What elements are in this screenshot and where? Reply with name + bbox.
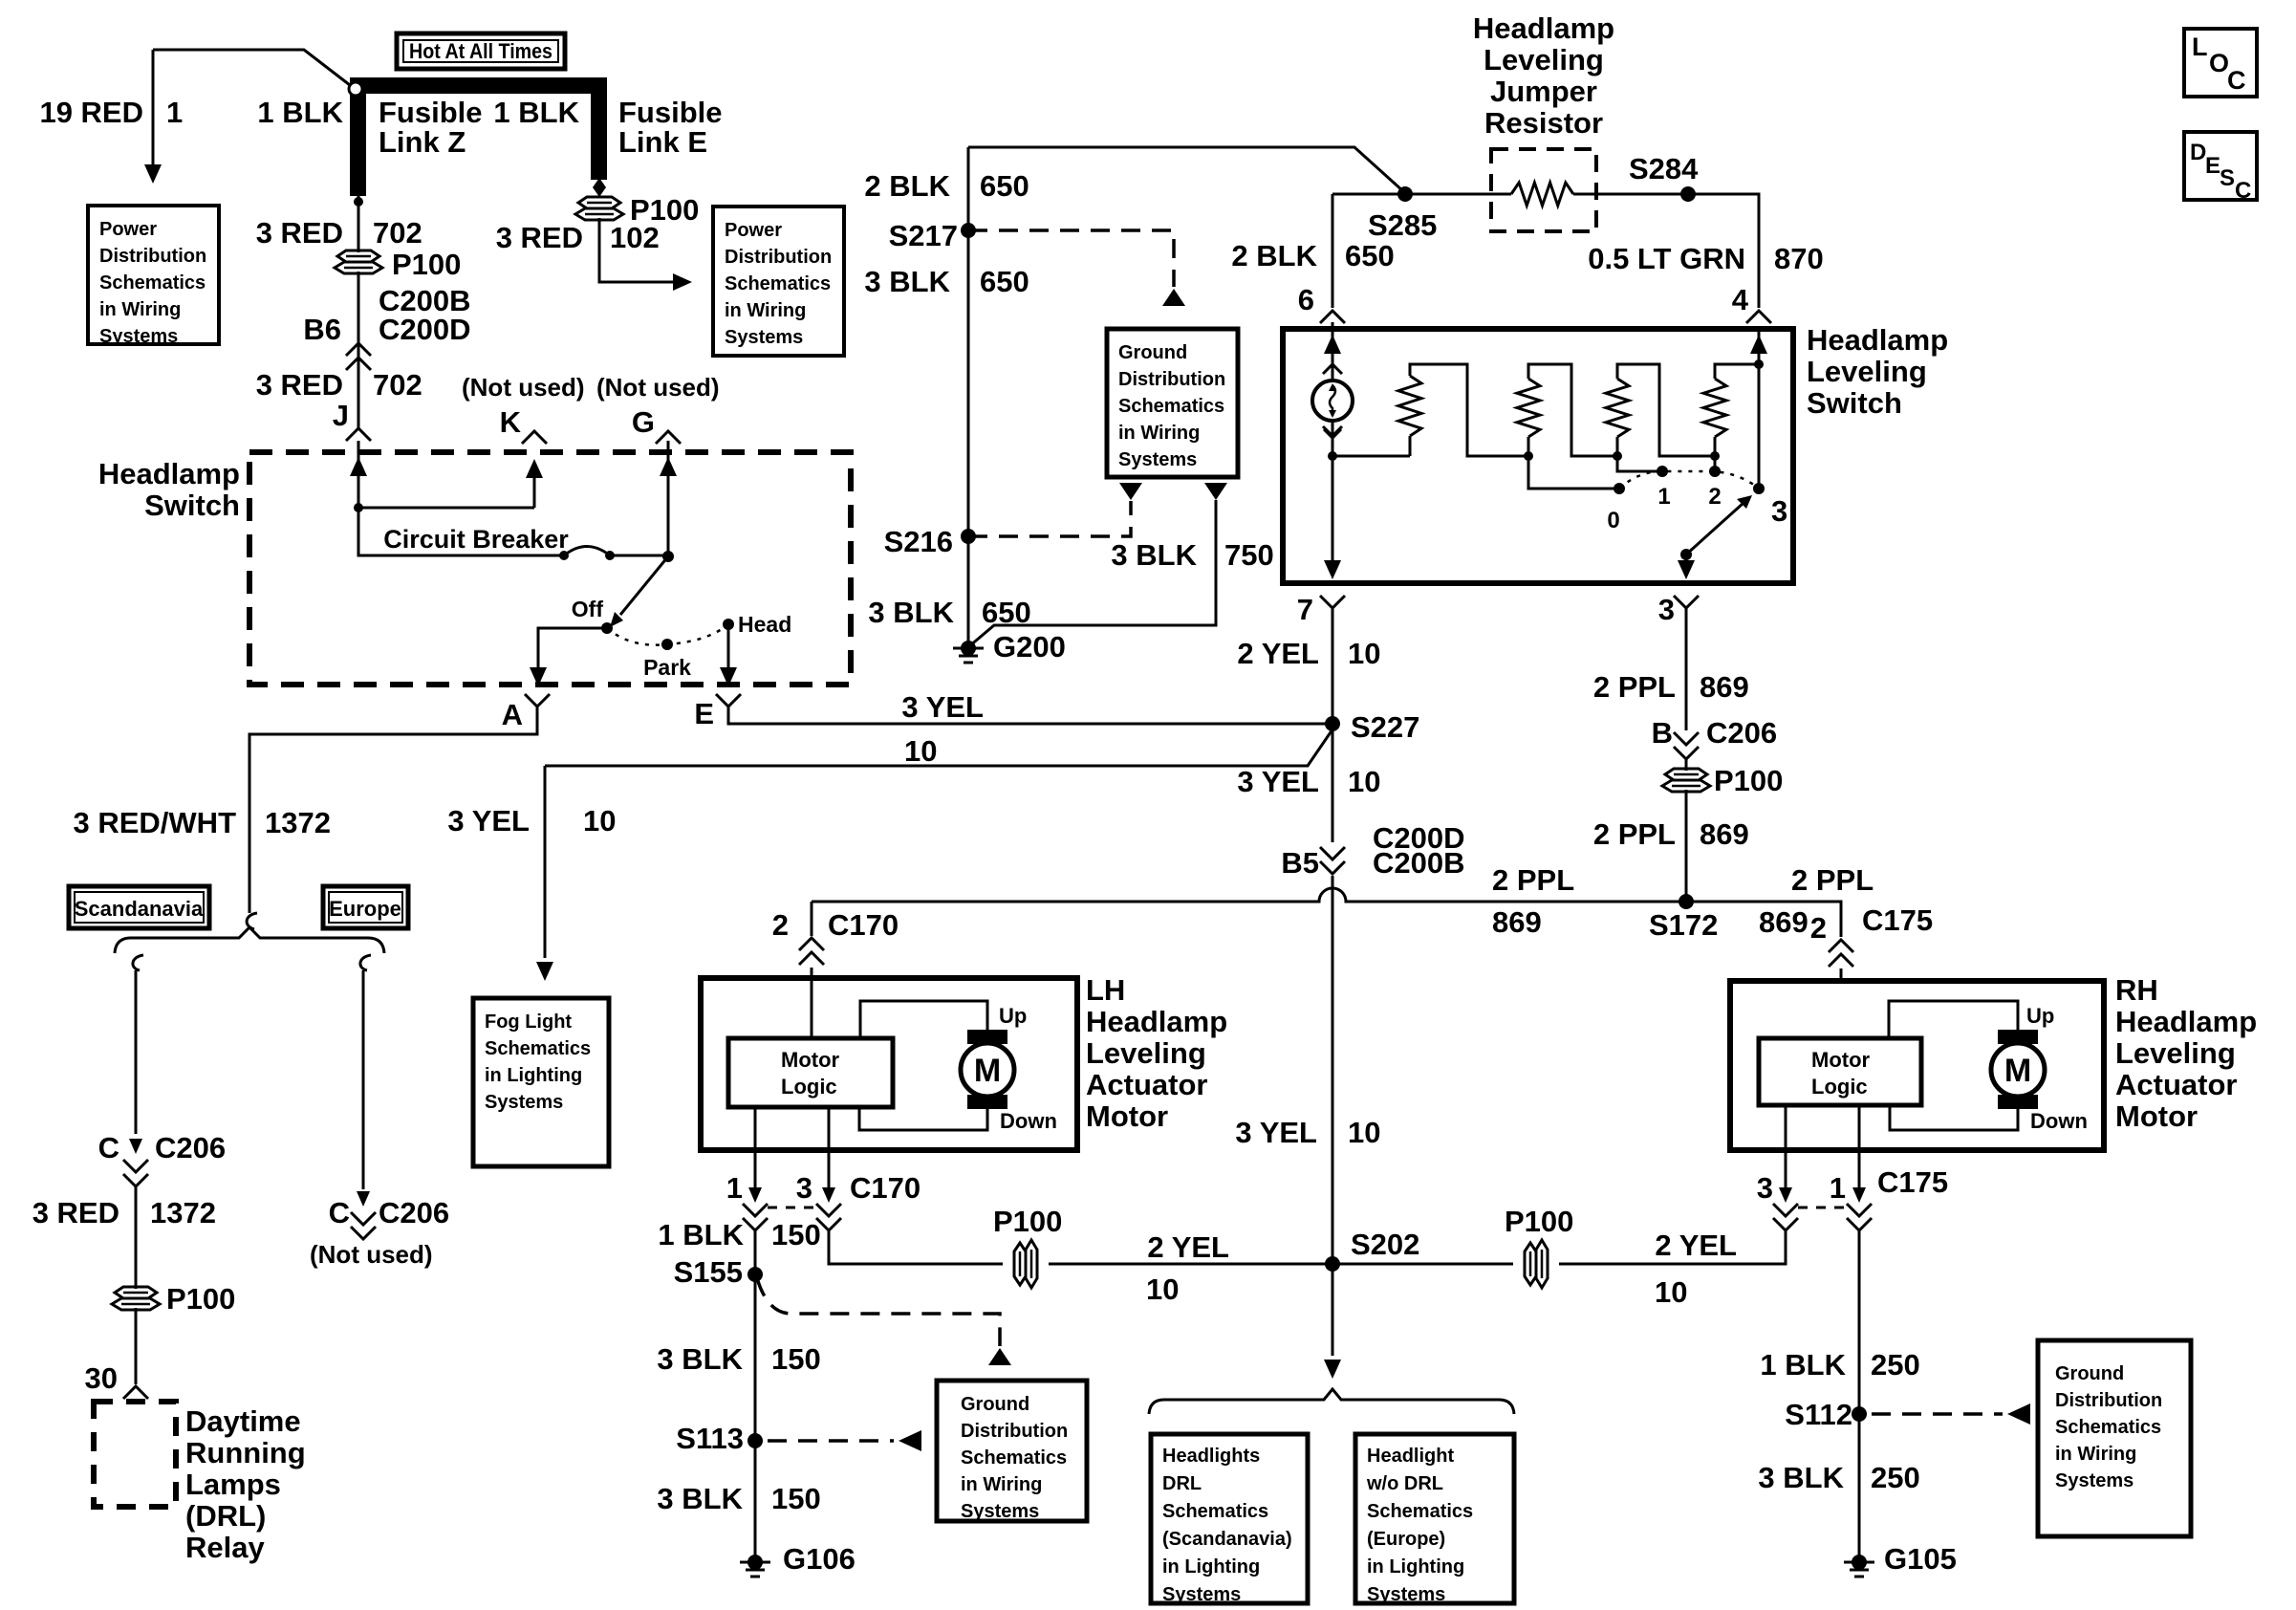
svg-text:Jumper: Jumper: [1490, 75, 1597, 108]
svg-text:B: B: [1652, 716, 1673, 750]
pin 6 wire inside switch: [1332, 322, 1334, 381]
svg-text:Distribution: Distribution: [2055, 1390, 2162, 1411]
node pin4 wire top: [1754, 359, 1764, 369]
svg-text:Headlights: Headlights: [1162, 1446, 1260, 1467]
reference box Headlights DRL Schematics Scandanavia: [1151, 1434, 1308, 1603]
svg-text:Systems: Systems: [725, 327, 803, 348]
wire to DRL relay pin 30: [135, 1308, 138, 1384]
svg-text:P100: P100: [392, 248, 461, 281]
svg-text:in Lighting: in Lighting: [485, 1065, 582, 1086]
svg-text:Actuator: Actuator: [2115, 1068, 2237, 1101]
resistor R4: [1703, 379, 1726, 437]
svg-text:C175: C175: [1862, 903, 1933, 937]
svg-text:0.5 LT GRN: 0.5 LT GRN: [1588, 242, 1745, 275]
wire 3 YEL 10 to fog lights: [544, 766, 547, 958]
node R2 bottom: [1524, 451, 1533, 461]
svg-text:S: S: [2220, 165, 2235, 191]
svg-text:3: 3: [1658, 593, 1675, 626]
svg-text:1372: 1372: [265, 806, 331, 839]
svg-text:30: 30: [85, 1361, 118, 1395]
brace over variant wires: [115, 927, 384, 953]
svg-text:869: 869: [1492, 905, 1542, 939]
switch wiper arrow to Off: [620, 556, 668, 615]
svg-text:1 BLK: 1 BLK: [1760, 1348, 1846, 1382]
connector C200 chevrons B5: [1320, 847, 1345, 859]
svg-text:C: C: [2227, 66, 2246, 95]
svg-text:2 YEL: 2 YEL: [1147, 1230, 1229, 1264]
svg-text:in Wiring: in Wiring: [725, 300, 806, 321]
svg-text:10: 10: [1348, 637, 1380, 670]
svg-text:Up: Up: [2026, 1004, 2054, 1028]
LH motor: [967, 1030, 1007, 1044]
svg-text:2 YEL: 2 YEL: [1655, 1229, 1737, 1262]
connector P100 on PPL 869: [1685, 759, 1688, 771]
splice S172: [1679, 894, 1694, 909]
svg-text:3 RED: 3 RED: [256, 216, 343, 250]
headlamp switch dashed box: [249, 452, 851, 685]
dashed reference S216 to ground distribution box: [968, 501, 1131, 536]
svg-text:Headlamp: Headlamp: [1086, 1005, 1227, 1038]
svg-text:3: 3: [1771, 494, 1787, 528]
wire 2 BLK 650 down to pin 6: [1332, 194, 1334, 308]
svg-text:2: 2: [1708, 484, 1721, 510]
fusible link Z body: [350, 94, 366, 196]
svg-text:7: 7: [1297, 593, 1313, 626]
splice S285: [1397, 186, 1413, 202]
dashed selector arc contacts: [1619, 471, 1759, 489]
reference box Power Distribution Schematics in Wiring Systems (left): [88, 206, 219, 344]
svg-text:3 BLK: 3 BLK: [1111, 538, 1197, 572]
svg-text:DRL: DRL: [1162, 1473, 1202, 1494]
svg-text:3 RED/WHT: 3 RED/WHT: [74, 806, 237, 839]
svg-text:S227: S227: [1351, 710, 1419, 744]
svg-text:Schematics: Schematics: [99, 272, 206, 294]
svg-text:Down: Down: [1000, 1109, 1057, 1133]
svg-text:Systems: Systems: [961, 1501, 1039, 1522]
svg-text:Ground: Ground: [1118, 342, 1187, 363]
svg-text:3 BLK: 3 BLK: [868, 596, 954, 629]
svg-text:2 PPL: 2 PPL: [1791, 863, 1874, 897]
svg-text:Logic: Logic: [1811, 1075, 1868, 1099]
svg-text:Headlamp: Headlamp: [2115, 1005, 2257, 1038]
dashed reference S217 to ground distribution box: [968, 230, 1174, 287]
svg-text:650: 650: [980, 265, 1029, 298]
fusible link E lower tip: [593, 178, 606, 197]
wire 3 RED 102 to power distribution ref: [599, 218, 679, 282]
svg-text:(Europe): (Europe): [1367, 1529, 1445, 1550]
svg-text:in Lighting: in Lighting: [1367, 1556, 1464, 1577]
svg-text:150: 150: [771, 1218, 821, 1251]
switch terminal J wire: [357, 441, 360, 508]
pin 4 wire inside switch: [1758, 329, 1761, 489]
svg-text:S217: S217: [889, 219, 958, 252]
svg-text:3: 3: [796, 1171, 812, 1205]
connector P100 on link E: [578, 197, 620, 208]
wire 19 RED feed from fusible link: [153, 50, 350, 85]
wire 2 YEL 10 pin7 to S227: [1332, 608, 1334, 718]
connector chevron terminal K: [522, 431, 547, 444]
svg-text:3 YEL: 3 YEL: [901, 690, 984, 724]
svg-text:10: 10: [583, 804, 616, 838]
wire 2 PPL 869 S172 to RH actuator: [1686, 902, 1841, 937]
connector chevron DRL pin 30: [123, 1386, 148, 1399]
svg-text:2 PPL: 2 PPL: [1593, 817, 1676, 851]
fusible link E body: [591, 94, 607, 180]
RH pin 1 wire: [1858, 1105, 1861, 1187]
contact 1: [1657, 466, 1668, 477]
svg-text:A: A: [502, 698, 523, 731]
svg-text:Distribution: Distribution: [725, 247, 832, 268]
connector P100 inline left: [1014, 1243, 1026, 1285]
svg-text:(Scandanavia): (Scandanavia): [1162, 1529, 1292, 1550]
wire 3 BLK 750 from ground box: [1204, 483, 1227, 500]
svg-text:2 PPL: 2 PPL: [1593, 670, 1676, 704]
splice S217: [961, 223, 976, 238]
svg-text:J: J: [333, 399, 349, 432]
svg-text:1372: 1372: [150, 1196, 216, 1229]
svg-text:Motor: Motor: [1086, 1099, 1168, 1133]
node R3 bottom: [1613, 451, 1622, 461]
wire Off to terminal A: [538, 628, 607, 671]
svg-text:LH: LH: [1086, 973, 1125, 1007]
svg-text:650: 650: [1345, 239, 1395, 272]
svg-text:C: C: [98, 1131, 119, 1164]
svg-text:O: O: [2209, 49, 2229, 77]
wire lamp to bus junction: [1332, 421, 1334, 456]
contact Head: [723, 619, 734, 630]
resistor R1: [1398, 376, 1421, 436]
svg-text:S216: S216: [884, 525, 953, 558]
svg-text:1: 1: [166, 96, 183, 129]
svg-text:Headlamp: Headlamp: [1807, 323, 1948, 357]
svg-text:3 YEL: 3 YEL: [447, 804, 530, 838]
svg-text:10: 10: [904, 734, 937, 768]
wire 2 YEL 10 to S202: [1049, 1263, 1332, 1266]
connector chevron pin 3 below switch: [1674, 596, 1699, 608]
svg-text:C200B: C200B: [1373, 846, 1465, 880]
jumper resistor element: [1511, 183, 1573, 206]
variant box Europe: [323, 886, 408, 928]
svg-text:S202: S202: [1351, 1228, 1419, 1261]
connector C175 pins 3 1 chevrons: [1773, 1204, 1798, 1216]
svg-text:C175: C175: [1877, 1165, 1948, 1199]
circuit breaker wire and contacts: [358, 508, 564, 555]
svg-text:3 BLK: 3 BLK: [864, 265, 950, 298]
reference box Ground Distribution Schematics in Wiring Systems (lower): [937, 1381, 1087, 1521]
wire end hook above brace: [247, 913, 257, 929]
svg-text:Switch: Switch: [144, 489, 240, 522]
svg-text:3 RED: 3 RED: [256, 368, 343, 402]
svg-text:S285: S285: [1368, 208, 1437, 242]
connector chevron pin 7 below switch: [1320, 596, 1345, 608]
svg-text:D: D: [2190, 140, 2206, 165]
headlamp leveling jumper resistor dashed box: [1491, 149, 1596, 231]
branch wire to terminal K: [358, 475, 534, 508]
LH pin 1 wire: [754, 1107, 757, 1187]
svg-text:Up: Up: [999, 1004, 1027, 1028]
svg-text:G105: G105: [1884, 1542, 1957, 1576]
svg-text:1: 1: [1830, 1171, 1846, 1205]
svg-text:102: 102: [610, 221, 660, 254]
svg-text:(Not used): (Not used): [462, 373, 585, 402]
connector chevron terminal J: [346, 428, 371, 441]
svg-text:Fusible: Fusible: [379, 96, 483, 129]
svg-text:6: 6: [1298, 283, 1314, 316]
svg-text:Logic: Logic: [781, 1075, 837, 1099]
connector chevron terminal A: [525, 694, 550, 707]
splice S216: [961, 529, 976, 544]
power bus bar: [350, 77, 607, 94]
LH up wire: [860, 1001, 987, 1038]
svg-text:Systems: Systems: [99, 326, 178, 347]
svg-text:G: G: [632, 405, 655, 439]
node splice open circle: [349, 82, 362, 96]
ground G105: [1852, 1555, 1867, 1570]
svg-text:S112: S112: [1785, 1398, 1852, 1431]
svg-text:Systems: Systems: [1162, 1584, 1241, 1605]
connector chevron terminal G: [656, 431, 681, 444]
svg-text:Power: Power: [725, 220, 782, 241]
wire 3 RED 702 upper: [357, 196, 360, 252]
wire 3 YEL 10 S202 down to DRL references: [1332, 1264, 1334, 1356]
connector C170 pin2 chevrons: [799, 938, 824, 950]
relay box Daytime Running Lamps DRL dashed: [94, 1402, 176, 1507]
svg-text:in Wiring: in Wiring: [1118, 423, 1200, 444]
pin 7 wire inside switch: [1332, 456, 1334, 566]
svg-text:Link Z: Link Z: [379, 125, 466, 159]
connector C200 chevrons B6: [346, 343, 371, 356]
svg-text:250: 250: [1871, 1461, 1920, 1494]
svg-text:1 BLK: 1 BLK: [658, 1218, 744, 1251]
resistor R3: [1606, 379, 1629, 437]
svg-text:2: 2: [772, 908, 789, 942]
svg-text:Distribution: Distribution: [961, 1421, 1068, 1442]
contact 3: [1753, 483, 1765, 494]
svg-text:Systems: Systems: [2055, 1470, 2134, 1491]
svg-text:Schematics: Schematics: [725, 273, 831, 294]
connector C206 chevrons B: [1674, 732, 1699, 745]
label box Hot At All Times: [397, 33, 565, 69]
svg-text:(Not used): (Not used): [596, 373, 720, 402]
svg-text:Hot At All Times: Hot At All Times: [409, 39, 552, 63]
svg-text:Headlamp: Headlamp: [1473, 11, 1614, 45]
svg-text:0: 0: [1607, 508, 1619, 533]
svg-text:2 PPL: 2 PPL: [1492, 863, 1574, 897]
svg-text:Leveling: Leveling: [1086, 1036, 1206, 1070]
svg-text:P100: P100: [993, 1205, 1062, 1238]
LH pin 3 wire: [828, 1107, 831, 1187]
wire 2 BLK to G200: [967, 147, 970, 642]
svg-text:Headlamp: Headlamp: [98, 457, 240, 490]
svg-text:S172: S172: [1649, 908, 1718, 942]
svg-text:Scandanavia: Scandanavia: [75, 897, 204, 921]
resistor ladder bus: [1332, 455, 1410, 458]
svg-text:C170: C170: [828, 908, 899, 942]
connector chevron pin 4: [1746, 311, 1771, 323]
svg-text:Schematics: Schematics: [961, 1447, 1067, 1469]
svg-text:S284: S284: [1629, 152, 1699, 185]
svg-text:Systems: Systems: [1118, 449, 1197, 470]
wire 2 YEL 10 to RH actuator: [1559, 1230, 1786, 1264]
svg-text:w/o DRL: w/o DRL: [1366, 1473, 1443, 1494]
RH actuator box: [1730, 981, 2104, 1150]
wire 1 BLK 250 to S112: [1858, 1230, 1861, 1562]
svg-text:2: 2: [1810, 911, 1827, 945]
svg-text:C: C: [329, 1196, 350, 1229]
svg-text:E: E: [2205, 153, 2220, 179]
svg-text:Motor: Motor: [781, 1048, 840, 1072]
svg-text:C206: C206: [155, 1131, 226, 1164]
junction node in switch: [354, 503, 363, 512]
svg-text:M: M: [2004, 1053, 2031, 1089]
svg-text:Park: Park: [643, 655, 691, 680]
headlamp leveling switch box: [1283, 329, 1793, 583]
splice S227: [1325, 716, 1340, 731]
svg-text:M: M: [974, 1053, 1001, 1089]
dashed selector arc Off Park Head: [607, 624, 728, 645]
svg-text:702: 702: [373, 216, 422, 250]
svg-text:Fusible: Fusible: [618, 96, 723, 129]
wire E to splice S227: [728, 707, 1327, 724]
svg-text:Systems: Systems: [1367, 1584, 1445, 1605]
svg-text:Head: Head: [738, 612, 791, 637]
wire into C200 connector: [357, 272, 360, 430]
wire Head to terminal E: [727, 624, 730, 671]
svg-text:Lamps: Lamps: [185, 1468, 281, 1501]
wire 19 RED down to power distribution: [152, 50, 155, 164]
svg-text:P100: P100: [1714, 764, 1783, 797]
terminal G wire: [667, 441, 670, 556]
svg-text:1: 1: [1657, 484, 1670, 510]
svg-text:869: 869: [1700, 817, 1749, 851]
wire S202 to P100 right: [1332, 1263, 1513, 1266]
svg-text:150: 150: [771, 1482, 821, 1515]
node R4 bottom: [1710, 451, 1720, 461]
ground G200: [961, 641, 976, 656]
Scandanavia branch wire: [133, 955, 143, 970]
svg-text:Down: Down: [2030, 1109, 2088, 1133]
svg-text:650: 650: [980, 169, 1029, 203]
wire 2 PPL pin3 to C206 B: [1685, 608, 1688, 730]
wire fog branch to splice S227: [545, 729, 1332, 766]
svg-text:3 RED: 3 RED: [496, 221, 583, 254]
resistor R2: [1517, 379, 1540, 437]
svg-text:P100: P100: [166, 1282, 235, 1316]
dashed reference S155 to ground box: [757, 1278, 1000, 1346]
reference box Ground Distribution Schematics in Wiring Systems (middle): [1107, 329, 1238, 477]
svg-text:2 BLK: 2 BLK: [1231, 239, 1317, 272]
wire 1 BLK 150 to S155: [754, 1230, 757, 1562]
RH up wire: [1889, 1001, 2018, 1038]
svg-text:Schematics: Schematics: [1367, 1501, 1473, 1522]
svg-text:150: 150: [771, 1342, 821, 1376]
svg-text:L: L: [2192, 33, 2208, 61]
svg-text:G200: G200: [993, 630, 1066, 664]
svg-text:Motor: Motor: [1811, 1048, 1871, 1072]
svg-text:Headlight: Headlight: [1367, 1446, 1454, 1467]
RH pin 3 wire: [1785, 1105, 1787, 1187]
brace over headlight reference boxes: [1149, 1389, 1514, 1414]
reference box Power Distribution Schematics in Wiring Systems (right): [713, 207, 844, 356]
connector chevron terminal E: [716, 694, 741, 707]
svg-text:Schematics: Schematics: [485, 1038, 591, 1059]
svg-text:C170: C170: [850, 1171, 921, 1205]
connector C175 pin2 chevrons: [1829, 940, 1853, 952]
svg-text:Ground: Ground: [2055, 1363, 2124, 1384]
connector P100 inline right: [1525, 1243, 1536, 1285]
wire 2 BLK 650 from bus: [968, 147, 1403, 191]
svg-text:2 BLK: 2 BLK: [864, 169, 950, 203]
svg-text:Resistor: Resistor: [1484, 106, 1603, 140]
svg-text:Schematics: Schematics: [1118, 396, 1224, 417]
svg-text:in Wiring: in Wiring: [99, 299, 181, 320]
svg-text:P100: P100: [1505, 1205, 1573, 1238]
wire 2 PPL main run with crossover hump: [812, 888, 1686, 902]
LH actuator box: [701, 978, 1077, 1150]
legend box LOC: [2184, 29, 2257, 97]
connector C206 pin C chevrons (Europe): [351, 1212, 376, 1225]
svg-text:10: 10: [1348, 765, 1380, 798]
RH down wire: [1890, 1105, 2018, 1130]
wire from A to Scandanavia Europe split: [249, 707, 537, 913]
svg-text:10: 10: [1655, 1275, 1687, 1309]
svg-text:G106: G106: [783, 1542, 856, 1576]
dashed reference S113 to ground box: [768, 1439, 894, 1443]
RH motor: [1998, 1030, 2038, 1044]
svg-text:Relay: Relay: [185, 1531, 265, 1564]
splice S202: [1325, 1256, 1340, 1272]
svg-text:1: 1: [726, 1171, 743, 1205]
svg-text:3 RED: 3 RED: [32, 1196, 119, 1229]
reference box Fog Light Schematics in Lighting Systems: [473, 998, 609, 1166]
LH motor logic box: [728, 1038, 893, 1107]
indicator lamp: [1312, 381, 1353, 421]
connector P100 on RED 702: [337, 250, 379, 262]
variant box Scandanavia: [69, 886, 209, 928]
contact Park: [661, 639, 673, 650]
contact Off: [601, 622, 613, 634]
dashed reference S112 to ground box: [1872, 1412, 2003, 1416]
svg-text:Schematics: Schematics: [2055, 1417, 2161, 1438]
svg-text:C206: C206: [1706, 716, 1777, 750]
contact 0: [1614, 483, 1625, 494]
wire resistor to S284: [1573, 194, 1759, 308]
splice S155: [747, 1267, 763, 1282]
svg-text:Circuit Breaker: Circuit Breaker: [383, 525, 569, 554]
svg-text:Europe: Europe: [329, 897, 401, 921]
svg-text:in Wiring: in Wiring: [2055, 1444, 2136, 1465]
svg-text:C: C: [2235, 178, 2251, 204]
svg-text:Systems: Systems: [485, 1092, 563, 1113]
contact 2: [1709, 466, 1721, 477]
wire 3 YEL 10 S227 to C200: [1332, 724, 1334, 842]
svg-text:Leveling: Leveling: [2115, 1036, 2236, 1070]
svg-text:B5: B5: [1281, 846, 1319, 880]
svg-text:C206: C206: [379, 1196, 449, 1229]
svg-text:C200D: C200D: [379, 313, 471, 346]
svg-text:Off: Off: [572, 597, 604, 621]
wiper arm with arrow: [1680, 549, 1692, 560]
ground G106: [747, 1555, 763, 1570]
svg-text:702: 702: [373, 368, 422, 402]
svg-text:in Wiring: in Wiring: [961, 1474, 1042, 1495]
wire 2 PPL 869 to S172: [1685, 790, 1688, 902]
RH motor logic box: [1759, 1038, 1921, 1105]
splice S112: [1852, 1406, 1867, 1422]
connector C206 pin C chevrons (Scandanavia): [123, 1160, 148, 1172]
wire pin3 LH to P100: [829, 1230, 1003, 1264]
svg-text:650: 650: [982, 596, 1031, 629]
